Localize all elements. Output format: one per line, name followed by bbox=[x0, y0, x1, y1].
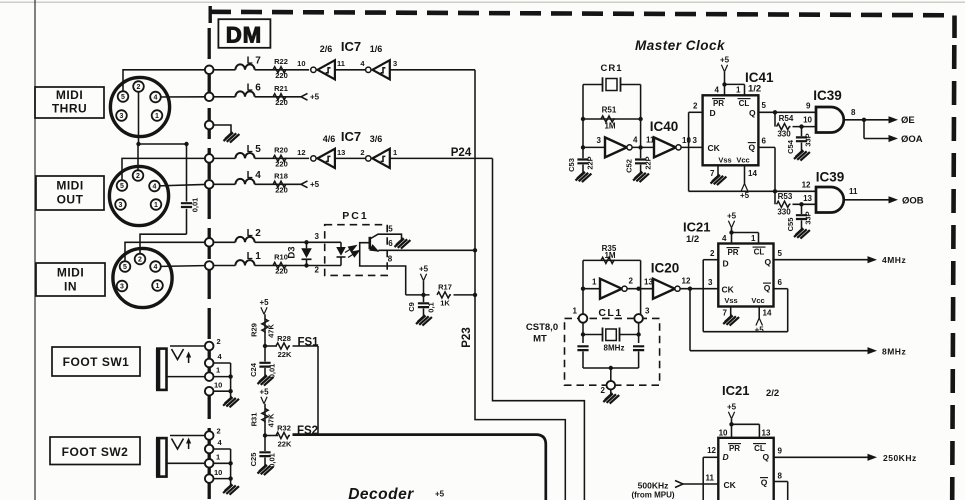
svg-text:2: 2 bbox=[136, 173, 140, 180]
svg-text:R53: R53 bbox=[778, 192, 793, 201]
svg-text:220: 220 bbox=[275, 71, 288, 80]
svg-text:2: 2 bbox=[710, 249, 715, 258]
svg-text:5: 5 bbox=[120, 183, 124, 190]
svg-text:10: 10 bbox=[682, 136, 691, 145]
svg-text:5: 5 bbox=[121, 94, 125, 101]
svg-text:PR: PR bbox=[727, 248, 738, 257]
svg-text:(from MPU): (from MPU) bbox=[631, 491, 674, 500]
svg-text:+5: +5 bbox=[310, 180, 320, 189]
svg-text:ØOB: ØOB bbox=[902, 196, 924, 207]
svg-text:L5: L5 bbox=[247, 144, 264, 155]
svg-text:2: 2 bbox=[693, 102, 698, 111]
svg-text:1: 1 bbox=[393, 148, 397, 157]
svg-text:R28: R28 bbox=[277, 334, 291, 343]
svg-text:10: 10 bbox=[214, 468, 222, 477]
svg-text:MIDI: MIDI bbox=[56, 88, 83, 102]
svg-text:CK: CK bbox=[724, 480, 737, 490]
svg-text:L1: L1 bbox=[247, 251, 264, 262]
svg-text:R31: R31 bbox=[250, 413, 259, 427]
svg-text:C52: C52 bbox=[625, 159, 634, 173]
svg-text:6: 6 bbox=[778, 278, 783, 287]
svg-text:CL1: CL1 bbox=[598, 307, 622, 319]
svg-text:C55: C55 bbox=[786, 218, 795, 232]
svg-text:3/6: 3/6 bbox=[370, 134, 383, 144]
svg-text:R54: R54 bbox=[779, 114, 794, 123]
svg-text:CK: CK bbox=[722, 285, 735, 295]
svg-text:CL: CL bbox=[754, 248, 765, 257]
svg-text:FS1: FS1 bbox=[297, 337, 319, 349]
svg-text:R22: R22 bbox=[274, 57, 288, 66]
svg-text:1: 1 bbox=[751, 234, 756, 243]
svg-text:D3: D3 bbox=[287, 246, 298, 258]
svg-text:Q: Q bbox=[749, 108, 756, 118]
svg-text:D: D bbox=[710, 108, 716, 118]
svg-text:10: 10 bbox=[214, 381, 222, 390]
svg-text:IC21: IC21 bbox=[722, 383, 749, 398]
svg-text:CK: CK bbox=[708, 143, 721, 153]
svg-text:500KHz: 500KHz bbox=[638, 481, 669, 491]
svg-text:220: 220 bbox=[275, 267, 288, 276]
svg-text:1: 1 bbox=[592, 277, 597, 286]
svg-text:+5: +5 bbox=[435, 490, 445, 499]
svg-text:+5: +5 bbox=[755, 326, 765, 335]
svg-text:+5: +5 bbox=[419, 265, 429, 274]
svg-text:R20: R20 bbox=[274, 146, 288, 155]
svg-text:1: 1 bbox=[216, 366, 220, 375]
svg-text:Vcc: Vcc bbox=[736, 156, 749, 165]
svg-text:9: 9 bbox=[806, 102, 811, 111]
svg-text:220: 220 bbox=[275, 186, 288, 195]
svg-text:3: 3 bbox=[120, 284, 124, 291]
svg-text:OUT: OUT bbox=[57, 193, 84, 207]
svg-text:DM: DM bbox=[226, 23, 262, 48]
svg-text:IC39: IC39 bbox=[816, 170, 845, 185]
svg-text:PC1: PC1 bbox=[342, 210, 368, 222]
svg-text:22K: 22K bbox=[278, 350, 292, 359]
svg-text:4/6: 4/6 bbox=[323, 134, 336, 144]
svg-text:L4: L4 bbox=[247, 170, 264, 181]
svg-text:8MHz: 8MHz bbox=[604, 344, 625, 353]
svg-text:0,01: 0,01 bbox=[268, 364, 277, 379]
svg-text:Decoder: Decoder bbox=[348, 486, 414, 500]
svg-text:10: 10 bbox=[803, 116, 812, 125]
svg-text:12: 12 bbox=[802, 181, 811, 190]
svg-text:3: 3 bbox=[597, 136, 602, 145]
svg-text:11: 11 bbox=[849, 187, 858, 196]
svg-text:10: 10 bbox=[297, 59, 305, 68]
svg-text:2: 2 bbox=[217, 337, 221, 346]
svg-text:Vss: Vss bbox=[724, 296, 737, 305]
svg-text:1/2: 1/2 bbox=[686, 234, 699, 245]
svg-text:2/2: 2/2 bbox=[766, 388, 779, 399]
svg-text:13: 13 bbox=[803, 194, 812, 203]
svg-text:MIDI: MIDI bbox=[57, 266, 84, 280]
svg-text:13: 13 bbox=[337, 148, 345, 157]
svg-text:47K: 47K bbox=[267, 413, 276, 427]
svg-text:FOOT SW1: FOOT SW1 bbox=[63, 355, 130, 369]
svg-text:Q: Q bbox=[763, 452, 770, 462]
svg-text:Vss: Vss bbox=[718, 156, 731, 165]
svg-text:Q: Q bbox=[765, 257, 772, 267]
svg-text:1: 1 bbox=[736, 86, 741, 95]
svg-text:C53: C53 bbox=[567, 158, 576, 172]
svg-text:1: 1 bbox=[216, 452, 220, 461]
svg-text:3: 3 bbox=[708, 278, 713, 287]
svg-text:5: 5 bbox=[123, 264, 127, 271]
svg-text:+5: +5 bbox=[740, 191, 750, 200]
svg-text:+5: +5 bbox=[259, 388, 269, 397]
svg-text:14: 14 bbox=[763, 309, 772, 318]
svg-text:L6: L6 bbox=[247, 82, 264, 93]
svg-text:IC40: IC40 bbox=[650, 119, 679, 134]
svg-text:220: 220 bbox=[275, 160, 288, 169]
svg-text:C24: C24 bbox=[249, 362, 258, 377]
svg-text:7: 7 bbox=[723, 309, 728, 318]
svg-text:3: 3 bbox=[393, 59, 397, 68]
svg-text:4: 4 bbox=[153, 184, 157, 191]
svg-text:2: 2 bbox=[360, 148, 364, 157]
svg-text:47K: 47K bbox=[267, 324, 276, 338]
svg-text:MIDI: MIDI bbox=[56, 179, 83, 193]
svg-text:R32: R32 bbox=[277, 423, 291, 432]
svg-text:22P: 22P bbox=[644, 156, 653, 169]
svg-text:12: 12 bbox=[682, 277, 691, 286]
svg-text:Vcc: Vcc bbox=[751, 296, 764, 305]
svg-text:1: 1 bbox=[573, 307, 578, 316]
svg-text:P24: P24 bbox=[451, 147, 472, 159]
svg-text:3: 3 bbox=[119, 202, 123, 209]
svg-text:0,1: 0,1 bbox=[427, 302, 436, 312]
svg-text:1: 1 bbox=[155, 113, 159, 120]
svg-text:2: 2 bbox=[217, 427, 221, 436]
svg-text:1: 1 bbox=[156, 283, 160, 290]
svg-text:R21: R21 bbox=[274, 84, 288, 93]
svg-text:Q: Q bbox=[761, 478, 768, 488]
svg-text:3: 3 bbox=[645, 307, 650, 316]
svg-text:8: 8 bbox=[778, 472, 783, 481]
svg-text:33P: 33P bbox=[804, 133, 813, 146]
svg-text:IC39: IC39 bbox=[813, 88, 842, 103]
svg-text:22K: 22K bbox=[278, 440, 292, 449]
svg-text:5: 5 bbox=[388, 225, 393, 234]
svg-text:4: 4 bbox=[715, 86, 720, 95]
svg-text:5: 5 bbox=[778, 249, 783, 258]
svg-text:11: 11 bbox=[646, 136, 655, 145]
svg-text:4MHz: 4MHz bbox=[882, 255, 906, 265]
svg-text:PR: PR bbox=[729, 444, 740, 453]
svg-text:2: 2 bbox=[137, 84, 141, 91]
svg-text:L7: L7 bbox=[247, 55, 264, 66]
svg-text:13: 13 bbox=[762, 429, 771, 438]
svg-text:0,01: 0,01 bbox=[268, 453, 277, 468]
svg-text:11: 11 bbox=[337, 59, 345, 68]
svg-text:THRU: THRU bbox=[52, 102, 87, 116]
svg-text:1/6: 1/6 bbox=[370, 44, 383, 54]
svg-text:6: 6 bbox=[762, 137, 767, 146]
svg-text:8MHz: 8MHz bbox=[882, 347, 906, 357]
svg-text:330: 330 bbox=[777, 130, 791, 139]
svg-text:13: 13 bbox=[644, 278, 653, 287]
svg-text:9: 9 bbox=[778, 447, 783, 456]
svg-text:5: 5 bbox=[762, 101, 767, 110]
svg-text:12: 12 bbox=[707, 446, 716, 455]
svg-text:2: 2 bbox=[138, 257, 142, 264]
svg-text:ØOA: ØOA bbox=[901, 134, 923, 145]
svg-text:0,01: 0,01 bbox=[191, 198, 200, 213]
svg-text:8: 8 bbox=[851, 108, 856, 117]
svg-text:L2: L2 bbox=[247, 228, 264, 239]
svg-text:R17: R17 bbox=[438, 283, 452, 292]
svg-text:FOOT SW2: FOOT SW2 bbox=[62, 445, 129, 459]
svg-text:CL: CL bbox=[739, 99, 750, 108]
svg-text:2: 2 bbox=[315, 266, 320, 275]
svg-text:R29: R29 bbox=[250, 323, 259, 337]
svg-text:250KHz: 250KHz bbox=[883, 453, 917, 463]
svg-text:3: 3 bbox=[315, 232, 320, 241]
svg-text:D: D bbox=[723, 259, 729, 269]
svg-text:IC21: IC21 bbox=[683, 220, 710, 235]
svg-text:+5: +5 bbox=[727, 403, 737, 412]
svg-text:IN: IN bbox=[64, 280, 77, 294]
svg-text:2: 2 bbox=[601, 386, 606, 395]
svg-text:4: 4 bbox=[154, 264, 158, 271]
svg-text:1K: 1K bbox=[440, 299, 450, 308]
svg-text:3: 3 bbox=[693, 136, 698, 145]
svg-text:+5: +5 bbox=[727, 212, 737, 221]
svg-text:8: 8 bbox=[388, 255, 393, 264]
svg-text:4: 4 bbox=[154, 95, 158, 102]
svg-text:2/6: 2/6 bbox=[320, 44, 333, 54]
svg-text:3: 3 bbox=[120, 113, 124, 120]
svg-text:C54: C54 bbox=[786, 139, 795, 154]
svg-text:330: 330 bbox=[777, 208, 791, 217]
svg-text:Master Clock: Master Clock bbox=[635, 38, 726, 53]
svg-text:11: 11 bbox=[706, 474, 715, 483]
svg-text:CR1: CR1 bbox=[600, 63, 622, 74]
svg-text:1/2: 1/2 bbox=[748, 84, 761, 95]
svg-text:Q: Q bbox=[764, 283, 771, 293]
svg-text:1M: 1M bbox=[604, 122, 615, 131]
svg-text:IC7: IC7 bbox=[341, 39, 361, 54]
svg-text:4: 4 bbox=[633, 136, 638, 145]
svg-text:+5: +5 bbox=[259, 298, 269, 307]
svg-text:R18: R18 bbox=[274, 172, 288, 181]
svg-text:220: 220 bbox=[275, 98, 288, 107]
svg-text:22P: 22P bbox=[586, 156, 595, 169]
svg-text:ØE: ØE bbox=[901, 115, 915, 126]
svg-text:6: 6 bbox=[388, 239, 393, 248]
svg-text:D: D bbox=[723, 452, 729, 462]
svg-text:4: 4 bbox=[722, 234, 727, 243]
svg-text:PR: PR bbox=[713, 99, 724, 108]
svg-text:7: 7 bbox=[710, 169, 715, 178]
svg-text:1: 1 bbox=[154, 202, 158, 209]
svg-text:12: 12 bbox=[297, 148, 305, 157]
svg-text:Q: Q bbox=[748, 143, 755, 153]
svg-text:C25: C25 bbox=[249, 453, 258, 467]
svg-text:CST8,0: CST8,0 bbox=[526, 322, 558, 333]
svg-text:1M: 1M bbox=[604, 251, 615, 260]
svg-text:IC20: IC20 bbox=[651, 261, 680, 276]
svg-text:IC7: IC7 bbox=[341, 129, 361, 144]
svg-text:R51: R51 bbox=[602, 106, 617, 115]
svg-text:14: 14 bbox=[748, 169, 757, 178]
svg-text:33P: 33P bbox=[804, 211, 813, 224]
svg-text:P23: P23 bbox=[461, 327, 473, 347]
svg-text:+5: +5 bbox=[720, 56, 730, 65]
svg-text:2: 2 bbox=[629, 277, 634, 286]
svg-text:FS2: FS2 bbox=[297, 425, 318, 437]
svg-text:10: 10 bbox=[719, 429, 728, 438]
svg-text:MT: MT bbox=[533, 334, 547, 345]
svg-text:C9: C9 bbox=[407, 302, 416, 312]
svg-text:+5: +5 bbox=[310, 93, 320, 102]
